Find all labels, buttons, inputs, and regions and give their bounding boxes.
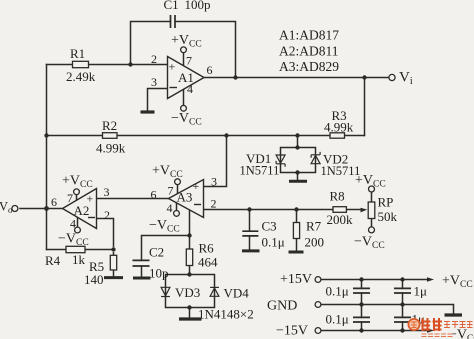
svg-text:2: 2 (151, 52, 157, 66)
terminal GND (315, 302, 321, 308)
wire: R6 riser from A3 pin2 (189, 210, 191, 275)
terminal +15V (315, 277, 321, 283)
svg-text:R2: R2 (102, 118, 117, 133)
node: VD3/VD4 top junction (187, 272, 191, 276)
wire: RP wiper arrow line (347, 209, 361, 211)
svg-text:−15V: −15V (276, 324, 308, 339)
bypass capacitor 1u (bottom col2) plates (394, 317, 411, 322)
potentiometer RP body (368, 202, 375, 219)
potentiometer RP wiper arrowhead (361, 208, 368, 213)
wire: -15V rail (321, 330, 428, 332)
wire: riser from Vi rail down to R3 (364, 78, 366, 136)
resistor R8 (333, 207, 346, 213)
node: GND rail cap2 (400, 302, 404, 306)
node: VD bridge bottom (295, 170, 299, 174)
terminal A2 +Vcc (74, 189, 80, 195)
svg-text:R1: R1 (70, 46, 85, 61)
wire: R5 stems (113, 253, 115, 276)
ground (VD1/VD2) (289, 180, 307, 183)
svg-text:4.99k: 4.99k (324, 120, 354, 135)
bypass capacitor 0.1u (top col1) plates (353, 288, 370, 293)
svg-text:2: 2 (211, 197, 217, 211)
wire: A2 pin2 feedback down to R4/R5 node (97, 219, 114, 247)
node: C2/R6 junction (187, 233, 191, 237)
ground (C3) (242, 249, 260, 252)
ground (A1 pin3) (141, 110, 155, 113)
watermark small characters row (444, 322, 473, 329)
node: VD3/VD4 bottom junction (187, 305, 191, 309)
wire: VD1/VD2 clamp bridge (281, 136, 316, 181)
terminal A1 +Vcc (181, 47, 187, 53)
node: -15V rail cap1 (359, 328, 363, 332)
svg-text:140: 140 (84, 272, 104, 287)
node: +15V rail cap2 (400, 277, 404, 281)
node: Vo junction (44, 206, 49, 211)
terminal A2 -Vcc (75, 227, 81, 233)
svg-text:1N5711: 1N5711 (240, 164, 280, 178)
diode VD3 1N4148 (161, 287, 170, 296)
resistor R6 (186, 249, 192, 266)
wire: A1 supply stubs (183, 53, 185, 106)
svg-text:2.49k: 2.49k (66, 69, 96, 84)
svg-text:1k: 1k (72, 252, 86, 267)
node: C1/output junction (233, 75, 237, 79)
junction node dots (44, 62, 405, 332)
wire: C1 feedback loop (131, 22, 236, 78)
svg-text:+15V: +15V (280, 272, 312, 287)
node: R4/R5/A2pin2 junction (111, 247, 115, 251)
terminal A1 -Vcc (181, 105, 187, 111)
terminal RP +Vcc (369, 186, 375, 192)
svg-text:6: 6 (151, 188, 157, 202)
svg-text:2: 2 (104, 208, 110, 222)
svg-text:0.1μ: 0.1μ (262, 235, 285, 250)
svg-text:200k: 200k (327, 212, 354, 227)
svg-text:4: 4 (70, 217, 76, 231)
svg-text:A3:AD829: A3:AD829 (279, 59, 339, 74)
node: VD bridge top rail junction (295, 133, 299, 137)
watermark dzsc logo (408, 319, 419, 330)
resistor R3 (330, 133, 345, 138)
arrowhead -Vcc supply (427, 328, 434, 332)
resistor R5 (110, 255, 116, 270)
bypass capacitor 1u (top col2) plates (394, 288, 411, 293)
svg-text:A2:AD811: A2:AD811 (279, 44, 339, 59)
resistor R7 (293, 223, 299, 239)
wire: top input rail y=64.5 from left bus to A1 pin2 (47, 64, 168, 66)
svg-text:100p: 100p (185, 0, 211, 12)
svg-text:+: + (193, 179, 200, 193)
svg-text:VD4: VD4 (224, 286, 250, 301)
svg-text:7: 7 (67, 191, 73, 205)
svg-text:RP: RP (378, 195, 394, 210)
ground (supply GND) (445, 313, 463, 316)
wire: A1 pin3 to ground (148, 89, 168, 111)
capacitor C1 plates (171, 15, 176, 28)
op-amp A3 (mirrored) (169, 180, 204, 218)
svg-text:C3: C3 (262, 219, 277, 234)
wire: A1 output rail to Vi terminal (204, 77, 389, 79)
wire: Vo terminal to A2 output tip (20, 208, 63, 210)
wire: A3 pin2 rail to R8 (204, 209, 334, 211)
svg-text:R6: R6 (199, 241, 215, 256)
svg-text:7: 7 (186, 54, 192, 68)
svg-text:+: + (87, 192, 94, 206)
diode VD1 1N5711 schottky (276, 155, 285, 167)
wire: A3 supply stubs (177, 185, 178, 211)
svg-text:200: 200 (305, 235, 325, 250)
wire: A3 output to A2 pin3 (97, 198, 169, 200)
svg-text:6: 6 (207, 63, 213, 77)
terminal A3 -Vcc (174, 211, 180, 217)
terminal A3 +Vcc (175, 179, 181, 185)
op-amp A1 (168, 57, 205, 99)
svg-text:C2: C2 (149, 245, 164, 260)
wire: bypass cap column 2 stems (402, 280, 404, 331)
watermark url row (422, 334, 453, 337)
svg-text:4: 4 (167, 201, 173, 215)
watermark brand characters (421, 318, 442, 331)
svg-text:C1: C1 (164, 0, 179, 12)
svg-text:+: + (169, 60, 176, 74)
svg-text:R7: R7 (306, 219, 322, 234)
wire: mid rail y=135.5 through R2 and R3 (47, 135, 365, 137)
ground (C2) (133, 277, 151, 280)
bypass capacitor 0.1u (bottom col1) plates (353, 317, 370, 322)
node: R7 junction (294, 207, 298, 211)
svg-text:A1: A1 (178, 70, 194, 85)
svg-text:7: 7 (168, 184, 174, 198)
wire: C2 branch from A3 inverting node (142, 236, 190, 277)
svg-text:3: 3 (104, 185, 110, 199)
resistor R2 (103, 133, 118, 139)
resistor R4 (66, 246, 85, 252)
svg-text:R4: R4 (45, 253, 61, 268)
wire: RP stems (371, 192, 373, 227)
node: GND rail cap1 (359, 302, 363, 306)
terminal Vi (389, 74, 395, 80)
terminal -15V (315, 328, 321, 334)
ground (R5) (104, 276, 123, 279)
svg-text:GND: GND (267, 299, 297, 314)
svg-text:6: 6 (51, 195, 57, 209)
resistor R1 (73, 61, 89, 67)
diode VD4 1N4148 (210, 287, 219, 296)
svg-text:A1:AD817: A1:AD817 (279, 28, 339, 43)
svg-text:3: 3 (151, 75, 157, 89)
wire: R4 row (47, 249, 114, 251)
node: A3 pin3 riser junction (224, 133, 228, 137)
wire: R7 stems (296, 210, 298, 251)
svg-text:3: 3 (211, 175, 217, 189)
svg-text:1μ: 1μ (414, 284, 428, 299)
svg-text:A3: A3 (177, 190, 193, 205)
svg-text:1N4148×2: 1N4148×2 (198, 307, 254, 322)
node: C3 junction (247, 207, 251, 211)
arrowhead +Vcc supply (427, 277, 434, 281)
wire: VD3/VD4 clamp bridge (166, 275, 215, 318)
node: R1/C1 junction (128, 62, 132, 66)
svg-text:4.99k: 4.99k (96, 141, 126, 156)
terminal Vo (12, 206, 18, 212)
svg-text:464: 464 (198, 255, 218, 270)
A1 - input mark (170, 87, 178, 89)
op-amp A2 (mirrored) (63, 189, 97, 229)
node: +15V rail cap1 (359, 277, 363, 281)
node: bus/R2 junction (44, 133, 48, 137)
svg-text:10p: 10p (149, 266, 169, 281)
svg-text:R8: R8 (330, 189, 345, 204)
diode VD2 1N5711 schottky (311, 152, 320, 164)
node: VD bridge top (295, 145, 299, 149)
wire: C3 stems (249, 210, 251, 250)
wire: +15V rail (321, 279, 428, 281)
wire: GND rail to chassis ground (321, 305, 454, 314)
node: Vi/R3 riser junction (362, 75, 366, 79)
terminal RP -Vcc (369, 227, 375, 233)
svg-text:50k: 50k (378, 209, 398, 224)
svg-text:0.1μ: 0.1μ (326, 312, 349, 327)
wire: A3 noninverting input riser from mid rail (204, 136, 227, 187)
A2 - input mark (88, 217, 95, 219)
ground (R7) (289, 251, 304, 254)
A3 - input mark (194, 204, 201, 206)
wire: left vertical bus x=46.5 (46, 65, 48, 250)
ground (VD3/VD4) (179, 317, 202, 320)
svg-text:VD3: VD3 (175, 285, 200, 300)
node: -15V rail cap2 (400, 328, 404, 332)
capacitor C2 plates (133, 260, 150, 266)
wire: A2 supply stubs (77, 195, 78, 227)
wire: bypass cap column 1 stems (361, 280, 363, 331)
capacitor C3 plates (242, 231, 258, 236)
svg-text:0.1μ: 0.1μ (326, 284, 349, 299)
